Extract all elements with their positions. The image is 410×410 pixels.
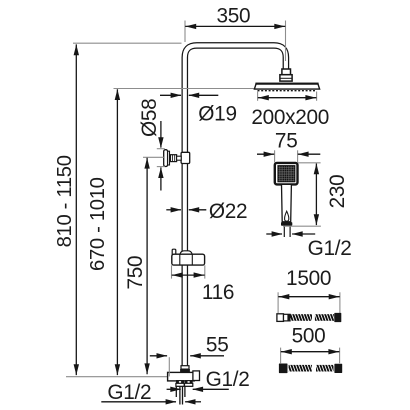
- long hose corrugation right: [315, 314, 334, 321]
- overhead shower head slab 200x200: [254, 83, 319, 89]
- svg-text:Ø22: Ø22: [209, 200, 247, 223]
- valve left outlet port: [176, 381, 184, 387]
- dimension 116 right extension: [204, 265, 206, 278]
- dimension 500 left extension: [280, 348, 282, 364]
- svg-text:G1/2: G1/2: [206, 368, 250, 391]
- slider stem nut: [170, 155, 176, 162]
- dimension 750 line: [144, 158, 149, 374]
- lower hand-shower holder body (116 wide): [172, 254, 205, 265]
- handle end black band: [281, 222, 292, 226]
- dimension 55 left arrow: [150, 353, 168, 358]
- bottom G1/2 connector outer walls: [176, 387, 185, 397]
- dimension 350 line: [185, 24, 285, 29]
- dimension 500 right extension: [339, 348, 341, 364]
- dimension 200x200 line: [258, 95, 317, 100]
- lower holder lever: [172, 249, 176, 255]
- extension line bottom of shower head (670-1010 reference): [114, 88, 255, 90]
- dimension Ø19 left arrow: [160, 93, 181, 98]
- diverter knob disc (Ø58): [164, 150, 170, 167]
- svg-text:Ø58: Ø58: [138, 99, 161, 137]
- valve body: [168, 372, 195, 381]
- hand shower spray face grid: [278, 166, 295, 182]
- svg-text:Ø19: Ø19: [198, 103, 236, 126]
- nut at top of shower-head down pipe: [282, 69, 291, 75]
- dimension bottom G1/2 left arrow: [101, 399, 176, 404]
- svg-text:75: 75: [275, 130, 298, 153]
- dimension 230 line: [314, 164, 319, 226]
- svg-text:G1/2: G1/2: [107, 381, 151, 404]
- slider stem shaft: [177, 156, 182, 160]
- dimension 350 left extension: [184, 21, 186, 43]
- hand shower handle: [282, 184, 292, 221]
- dimension Ø58 top tick: [157, 148, 165, 150]
- short hose corrugation left: [289, 365, 312, 372]
- svg-text:1500: 1500: [286, 267, 331, 290]
- dimension bottom G1/2 right arrow: [185, 399, 201, 404]
- svg-text:810 - 1150: 810 - 1150: [54, 155, 76, 247]
- svg-text:230: 230: [326, 175, 349, 209]
- dimension 670-1010 line: [115, 89, 120, 375]
- dimension Ø58 lower arrow: [158, 167, 163, 190]
- dimension Ø19 right arrow: [188, 93, 218, 98]
- long hose corrugation left: [291, 314, 313, 321]
- svg-text:350: 350: [216, 5, 250, 28]
- dimension Ø22 right arrow: [188, 207, 206, 212]
- long hose left nut A: [277, 314, 284, 322]
- hand shower head: [275, 163, 298, 185]
- dimension 230 bottom extension: [283, 225, 321, 227]
- dimension Ø58 upper arrow: [158, 121, 163, 148]
- valve right nut: [193, 371, 200, 381]
- dimension 500 line: [281, 349, 340, 354]
- spray nozzle dotted row under head: [258, 90, 317, 92]
- coupling nut above valve: [180, 366, 190, 373]
- svg-text:500: 500: [292, 324, 326, 347]
- dimension hand shower G1/2 right arrow: [292, 231, 315, 236]
- lower holder saddle bump: [180, 251, 193, 255]
- dimension 810-1150 line: [74, 44, 79, 375]
- upper slider block on riser: [181, 152, 190, 163]
- holder segment line left: [179, 254, 181, 265]
- dimension Ø22 left arrow: [166, 207, 181, 212]
- svg-text:670 - 1010: 670 - 1010: [87, 177, 109, 271]
- valve right outlet port: [185, 381, 193, 387]
- dimension 750 extension at knob centre: [143, 156, 164, 158]
- dimension 1500 line: [278, 294, 339, 299]
- handle G1/2 thread stub: [284, 226, 290, 237]
- dimension 55 extension: [168, 357, 170, 376]
- dimension 200x200 right extension: [316, 92, 318, 101]
- dimension Ø58 bottom tick: [157, 166, 165, 168]
- svg-text:55: 55: [206, 334, 229, 357]
- dimension valve G1/2 left arrow: [167, 387, 182, 392]
- svg-text:200x200: 200x200: [251, 106, 329, 129]
- dimension 116 left extension: [171, 265, 173, 278]
- dimension 350 right extension: [285, 21, 287, 62]
- dimension 75 right extension: [297, 150, 299, 162]
- svg-text:750: 750: [124, 256, 147, 290]
- dimension 1500 right extension: [339, 292, 341, 313]
- long hose left nut B: [284, 314, 291, 321]
- short hose left fitting: [279, 364, 288, 374]
- dimension 230 top extension: [298, 162, 321, 164]
- cone adapter above shower head: [280, 75, 292, 81]
- long hose right fitting: [334, 313, 341, 322]
- dimension 55 right arrow: [190, 353, 224, 358]
- riser pipe white core: [185, 45, 286, 366]
- dimension 75 right arrow: [298, 152, 321, 157]
- handle teardrop detail: [285, 211, 289, 221]
- short hose right fitting: [334, 364, 342, 373]
- dimension valve G1/2 right arrow: [192, 387, 229, 392]
- riser pipe with overhead arm (outline): [185, 45, 286, 366]
- svg-text:116: 116: [202, 281, 234, 304]
- dimension 1500 left extension: [277, 292, 279, 313]
- dimension 75 left extension: [274, 150, 276, 162]
- dimension 116 line: [172, 272, 205, 277]
- extension line top of column (810-1150 reference): [73, 42, 182, 44]
- svg-text:G1/2: G1/2: [308, 237, 352, 260]
- holder segment line right: [191, 254, 193, 265]
- short hose corrugation right: [316, 365, 334, 372]
- dimension hand shower G1/2 left arrow: [266, 231, 282, 236]
- bottom G1/2 connector inner tube: [180, 387, 183, 405]
- dimension 75 left arrow: [257, 152, 274, 157]
- common bottom reference line at valve centre: [66, 376, 168, 378]
- dimension 200x200 left extension: [257, 92, 259, 101]
